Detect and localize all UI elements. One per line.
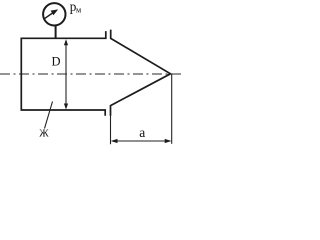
- tank outline: [21, 31, 106, 116]
- svg-text:Ж: Ж: [39, 129, 49, 140]
- dimension D arrow: [65, 41, 67, 109]
- gauge stem: [55, 26, 57, 39]
- leader line for Zh: [45, 102, 53, 129]
- gauge needle: [44, 12, 54, 19]
- svg-text:a: a: [139, 125, 145, 140]
- dimension a line: [112, 140, 170, 142]
- extension line left (a): [110, 112, 112, 144]
- svg-text:pм: pм: [70, 0, 81, 15]
- centerline axis: [0, 73, 182, 75]
- extension line right (a): [171, 74, 173, 144]
- gauge Pm body: [43, 3, 65, 25]
- svg-text:D: D: [52, 55, 61, 69]
- nozzle cone: [111, 30, 171, 116]
